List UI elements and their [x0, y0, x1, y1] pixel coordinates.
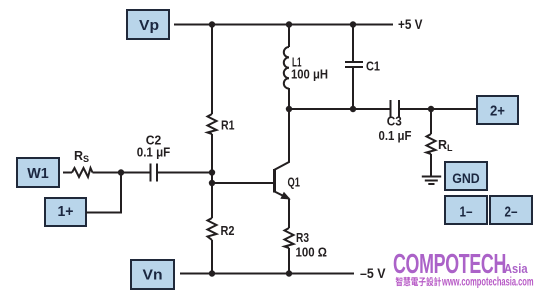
node base junction [209, 180, 215, 186]
inductor L1 [284, 25, 328, 110]
svg-text:Vn: Vn [143, 268, 163, 284]
node output rail / C1 [350, 106, 356, 112]
resistor RL [427, 109, 454, 177]
wire Q1 base lead [212, 182, 273, 184]
terminal box 2+ [477, 96, 518, 124]
svg-text:–5 V: –5 V [360, 266, 386, 281]
Q1 emitter arrow [281, 193, 289, 199]
wire Q1 emitter to R3 [288, 199, 290, 229]
svg-text:C3: C3 [387, 113, 402, 128]
svg-text:www.compotechasia.com: www.compotechasia.com [441, 276, 533, 289]
svg-text:Vp: Vp [139, 18, 159, 34]
node top rail / L1 junction [286, 21, 292, 27]
node RS / 1+ junction [118, 169, 124, 175]
terminal box 1+ [45, 198, 86, 226]
wire Q1 emitter lead [275, 192, 290, 199]
resistor R1 [208, 114, 217, 134]
svg-text:R1: R1 [221, 118, 235, 133]
svg-text:COMPOTECH: COMPOTECH [393, 248, 506, 279]
wire output rail to C3 [289, 108, 390, 110]
ground [422, 177, 441, 185]
svg-text:1–: 1– [460, 205, 473, 221]
node output rail / RL [428, 106, 434, 112]
svg-text:GND: GND [452, 170, 480, 186]
resistor R2 [208, 218, 217, 240]
svg-text:W1: W1 [27, 166, 49, 182]
terminal box Vn [131, 260, 174, 289]
svg-text:Q1: Q1 [288, 175, 301, 190]
svg-text:C1: C1 [366, 59, 380, 74]
svg-text:1+: 1+ [58, 204, 74, 220]
wire Q1 collector lead [275, 109, 290, 170]
wire W1 to RS [63, 172, 72, 174]
RL zigzag body [427, 134, 436, 154]
R3 zigzag body [285, 228, 294, 248]
RS zigzag body [72, 168, 93, 177]
wire L1 top lead [288, 25, 290, 48]
svg-text:0.1 μF: 0.1 μF [379, 128, 412, 143]
wire 1+ to input node [86, 175, 121, 213]
wire C3 to terminal 2+ [399, 108, 477, 110]
wire RL leads [430, 109, 432, 177]
wire RS to C2 [93, 172, 151, 174]
terminal box GND [445, 162, 487, 190]
svg-text:RS: RS [74, 149, 89, 164]
svg-text:Asia: Asia [504, 261, 528, 276]
capacitor C3 [379, 100, 412, 143]
svg-text:0.1 μF: 0.1 μF [137, 144, 171, 159]
transistor Q1 [212, 109, 300, 228]
node bottom rail / R3 [286, 270, 292, 276]
terminal box 2- [490, 196, 532, 224]
resistor R3 [285, 228, 328, 274]
svg-text:2+: 2+ [490, 104, 505, 120]
node top rail / C1 junction [350, 21, 356, 27]
C3 plates [391, 100, 400, 118]
wire R1-R2 vertical bias chain [211, 25, 213, 274]
capacitor C2 [137, 132, 211, 181]
wire bottom rail -5V [180, 273, 354, 275]
node C2 / R1R2 junction [209, 169, 215, 175]
terminal box 1- [445, 196, 487, 224]
wire C1 leads [352, 25, 354, 110]
svg-text:100 μH: 100 μH [291, 67, 328, 82]
logo COMPOTECH Asia [393, 248, 534, 289]
wire C2 to base node [157, 172, 211, 174]
wire L1 bottom lead [288, 88, 290, 109]
svg-text:2–: 2– [505, 205, 518, 221]
terminal box W1 [17, 158, 59, 187]
logo tagline chinese [396, 277, 441, 286]
svg-text:+5 V: +5 V [398, 17, 423, 32]
capacitor C1 [345, 25, 380, 110]
Q1 base bar [273, 169, 276, 193]
wire top rail +5V [174, 24, 393, 26]
terminal box Vp [127, 10, 169, 39]
C1 plates [345, 62, 363, 67]
node bottom rail / R2 [209, 270, 215, 276]
L1 coil body [284, 47, 289, 89]
C2 plates [151, 164, 158, 182]
node output rail / L1 [286, 106, 292, 112]
svg-text:RL: RL [438, 138, 453, 153]
svg-text:R3: R3 [296, 230, 309, 245]
wire R3 bottom lead [288, 248, 290, 274]
svg-text:R2: R2 [221, 223, 235, 238]
node top rail / R1 junction [209, 21, 215, 27]
resistor RS [63, 149, 150, 177]
svg-text:100 Ω: 100 Ω [296, 244, 328, 259]
